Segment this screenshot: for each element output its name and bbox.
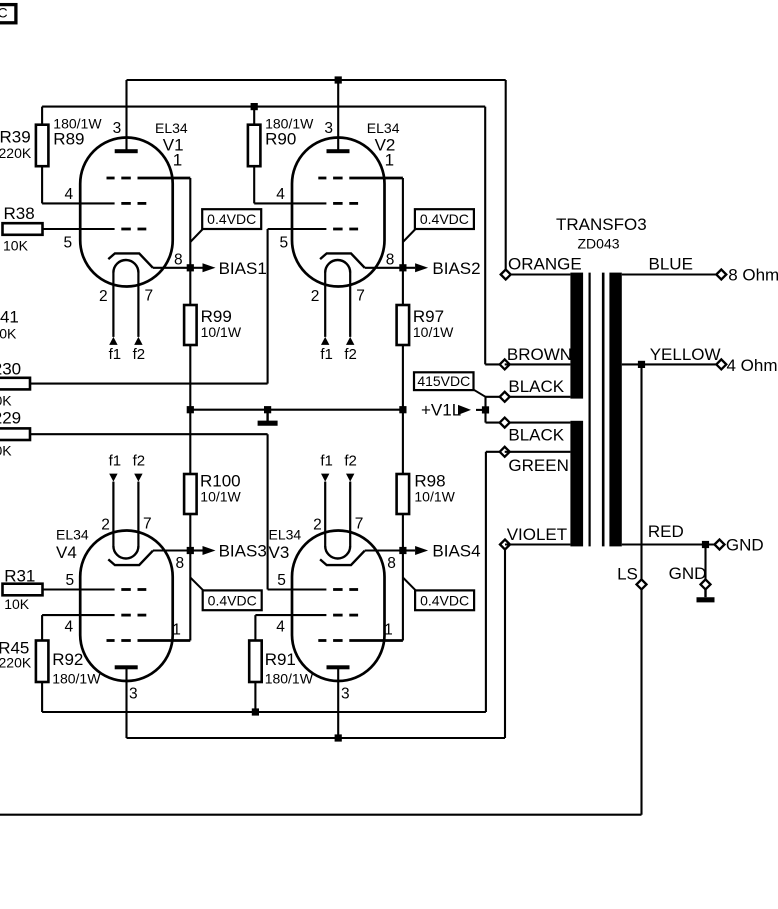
tube V2 heater filament (pins 2,7) (325, 260, 350, 273)
leader line for 0.4VDC callout (190, 578, 203, 591)
svg-text:EL34: EL34 (155, 120, 188, 136)
wire: bias return line between chains (190, 409, 403, 411)
tube V3 grid g2 dashes (pin 4 row) (333, 614, 343, 617)
chassis ground symbol (mid line) (266, 410, 268, 421)
svg-text:R38: R38 (4, 204, 35, 223)
resistor R230 (partially off-sheet) (0, 378, 30, 390)
svg-text:180/1W: 180/1W (265, 670, 314, 686)
svg-text:220K: 220K (0, 654, 32, 670)
wire: R90 bottom to V2 pin 4 (253, 166, 255, 203)
svg-text:10K: 10K (3, 238, 29, 254)
resistor R31 10K (3, 584, 43, 596)
svg-text:BIAS2: BIAS2 (432, 259, 480, 278)
terminal GND (chassis) (701, 579, 711, 589)
svg-text:10K: 10K (0, 442, 12, 458)
wire: bias chain V1 pin1 to V4 pin1 through R99/R100 (189, 178, 191, 641)
svg-text:EL34: EL34 (367, 120, 400, 136)
svg-text:220K: 220K (0, 145, 32, 161)
svg-text:f1: f1 (109, 453, 122, 470)
resistor R91 180/1W (249, 641, 262, 683)
svg-text:7: 7 (143, 515, 152, 532)
wire + terminal RED / GND (622, 543, 715, 545)
svg-text:ZD043: ZD043 (578, 236, 620, 252)
svg-text:1: 1 (172, 622, 181, 639)
svg-text:V4: V4 (56, 543, 77, 562)
tube V4 anode plate (pin 3) (115, 665, 138, 669)
svg-text:GND: GND (726, 535, 764, 554)
svg-text:8: 8 (176, 555, 185, 572)
wire: feedback LS line (640, 364, 642, 579)
tube V3 anode plate (pin 3) (327, 665, 350, 669)
terminal BROWN (500, 359, 510, 369)
svg-text:5: 5 (66, 572, 75, 589)
svg-text:BIAS1: BIAS1 (219, 259, 267, 278)
wire + terminal BLUE / 8 Ohm output (622, 273, 717, 275)
svg-text:RED: RED (648, 522, 684, 541)
tube V1 grid g3 dashes (pin 1 row) (107, 177, 115, 180)
value label 0.4VDC callout box (415, 209, 474, 229)
resistor R100 10/1W (184, 474, 197, 514)
svg-text:BLUE: BLUE (649, 255, 693, 274)
leader line for 0.4VDC callout (403, 578, 416, 591)
svg-text:5: 5 (64, 235, 73, 252)
svg-text:GND: GND (669, 564, 707, 583)
node BIAS4 (399, 547, 406, 554)
leader line for 0.4VDC callout (190, 229, 203, 242)
tube V2 envelope (292, 138, 385, 287)
svg-text:3: 3 (324, 120, 333, 137)
svg-text:ORANGE: ORANGE (508, 255, 582, 274)
svg-text:10K: 10K (4, 596, 30, 612)
wire: V1 grid g3 row to chain (138, 177, 191, 180)
junction: left chain / mid line (187, 406, 194, 413)
tube V3 grid g3 dashes (pin 1 row) (318, 639, 326, 642)
junction: V2 plate on bus (335, 76, 342, 83)
wire: R31 to V4 pin 5 (43, 588, 115, 590)
tube V3 envelope (292, 531, 385, 682)
wire: R91 top to V3 pin 4 (254, 615, 256, 640)
svg-text:BIAS4: BIAS4 (432, 542, 480, 561)
value label 0.4VDC callout box (202, 209, 261, 229)
wire: bias chain V2 pin1 to V3 pin1 through R97/R98 (402, 178, 404, 641)
wire: R229 to V3 pin 5 (30, 433, 268, 435)
svg-text:+V1L: +V1L (421, 400, 461, 419)
node BIAS1 (187, 264, 194, 271)
wire: V3 grid g3 row to chain (349, 639, 403, 642)
terminal LS (637, 579, 647, 589)
svg-text:f2: f2 (133, 453, 146, 470)
terminal GREEN (500, 447, 510, 457)
svg-text:1: 1 (173, 151, 182, 170)
svg-text:10K: 10K (0, 392, 12, 408)
svg-text:2: 2 (101, 516, 110, 533)
svg-text:10/1W: 10/1W (200, 489, 241, 505)
tube V4 cathode (pin 8) (108, 551, 153, 565)
wire: V4 grid g3 row to chain (138, 639, 191, 642)
tube V2 grid g1 dashes (pin 5 row) (333, 228, 343, 231)
svg-text:4: 4 (276, 186, 285, 203)
transformer primary winding lower section (570, 421, 583, 547)
wire: RED to chassis ground (704, 545, 706, 580)
resistor R89 180/1W (36, 125, 49, 167)
svg-text:R89: R89 (53, 129, 84, 148)
resistor R97 10/1W (397, 305, 410, 345)
svg-text:0.4VDC: 0.4VDC (207, 211, 256, 227)
svg-text:LS: LS (617, 564, 638, 583)
svg-text:0.4VDC: 0.4VDC (420, 211, 469, 227)
svg-text:R41: R41 (0, 308, 19, 327)
resistor R99 10/1W (184, 305, 197, 345)
svg-text:BROWN: BROWN (507, 345, 572, 364)
wire: R38 to V1 pin 5 (43, 228, 115, 230)
svg-text:8 Ohm: 8 Ohm (728, 266, 778, 285)
wire + terminal BLACK (lower centre tap) (486, 422, 571, 424)
transformer secondary winding (609, 273, 621, 547)
svg-text:TRANSFO3: TRANSFO3 (556, 215, 647, 234)
svg-text:5: 5 (277, 572, 286, 589)
wire: V2 pin 8 to BIAS2 node (365, 267, 403, 269)
wire + terminal BLACK (upper centre tap) (486, 396, 571, 398)
filament terminal arrow f1 of V2 (321, 337, 329, 345)
tube V1 anode plate (pin 3) (115, 149, 138, 153)
svg-text:f2: f2 (133, 346, 146, 363)
filament terminal arrow f2 of V1 (134, 337, 142, 345)
wire: plate bus V4/V3 to transformer VIOLET (127, 737, 506, 739)
wire: screen bus R92/R91 bottoms to transformer GREEN (41, 682, 43, 712)
tube V4 grid g1 dashes (pin 5 row) (121, 588, 131, 591)
svg-text:f2: f2 (344, 346, 357, 363)
wire: V2 grid g3 row to chain (349, 177, 403, 180)
junction: 4 Ohm tap to LS feedback (638, 361, 645, 368)
svg-text:R39: R39 (0, 128, 31, 147)
tube V3 heater filament (pins 2,7) (325, 546, 350, 559)
filament terminal arrow f1 of V3 (321, 474, 329, 482)
wire + terminal ORANGE (506, 273, 571, 275)
svg-text:5: 5 (280, 235, 289, 252)
filament terminal arrow f2 of V2 (346, 337, 354, 345)
tube V1 grid g1 dashes (pin 5 row) (121, 228, 131, 231)
wire: screen bus R89/R90 to transformer BROWN (42, 106, 485, 108)
chassis ground symbol (output) (704, 589, 706, 597)
leader line for 415VDC callout (473, 389, 486, 397)
svg-text:415VDC: 415VDC (417, 373, 470, 389)
svg-text:C: C (0, 5, 8, 21)
svg-text:8: 8 (386, 252, 395, 269)
svg-text:BLACK: BLACK (508, 377, 564, 396)
wire: R89 bottom to V1 pin 4 (41, 166, 43, 203)
svg-text:BIAS3: BIAS3 (219, 542, 267, 561)
transformer primary winding upper section (570, 273, 583, 399)
svg-text:2: 2 (99, 288, 108, 305)
terminal VIOLET (500, 540, 510, 550)
svg-text:VIOLET: VIOLET (507, 525, 567, 544)
node +V1L (HT centre tap) (484, 397, 486, 423)
node BIAS3 (187, 547, 194, 554)
wire: R92 top to V4 pin 4 (41, 615, 43, 640)
svg-text:10K: 10K (0, 325, 17, 341)
tube V1 envelope (80, 138, 173, 287)
svg-text:3: 3 (341, 686, 350, 703)
svg-text:1: 1 (385, 151, 394, 170)
svg-text:EL34: EL34 (269, 527, 302, 543)
svg-text:R91: R91 (265, 650, 296, 669)
node BIAS2 (399, 264, 406, 271)
wire: V4 pin 8 to BIAS3 node (153, 549, 190, 551)
svg-text:R230: R230 (0, 359, 21, 378)
svg-text:f1: f1 (320, 453, 333, 470)
svg-text:0.4VDC: 0.4VDC (420, 592, 469, 608)
svg-text:2: 2 (311, 288, 320, 305)
tube V3 cathode (pin 8) (320, 551, 365, 565)
svg-text:1: 1 (384, 622, 393, 639)
svg-text:10/1W: 10/1W (414, 489, 455, 505)
tube V3 grid g1 dashes (pin 5 row) (333, 588, 343, 591)
resistor R98 10/1W (397, 474, 410, 514)
wire + terminal YELLOW / 4 Ohm output (622, 363, 717, 365)
resistor R90 180/1W (248, 125, 261, 167)
wire: V3 pin 8 to BIAS4 node (365, 549, 403, 551)
filament terminal arrow f1 of V4 (109, 474, 117, 482)
wire: plate bus V1/V2 to transformer ORANGE (127, 79, 506, 81)
svg-text:3: 3 (113, 120, 122, 137)
tube V1 grid g2 dashes (pin 4 row) (121, 202, 131, 205)
resistor R229 (partially off-sheet) (0, 428, 30, 440)
filament terminal arrow f2 of V4 (134, 474, 142, 482)
wire: V1 pin 8 to BIAS1 node (153, 267, 190, 269)
filament terminal arrow f1 of V1 (109, 337, 117, 345)
svg-text:10/1W: 10/1W (201, 324, 242, 340)
value label 0.4VDC callout box (203, 590, 262, 610)
svg-text:180/1W: 180/1W (52, 670, 101, 686)
tube V4 grid g3 dashes (pin 1 row) (107, 639, 115, 642)
svg-text:8: 8 (387, 555, 396, 572)
svg-text:f1: f1 (109, 346, 122, 363)
svg-text:2: 2 (313, 516, 322, 533)
junction: right chain / mid line (399, 406, 406, 413)
svg-text:4 Ohm: 4 Ohm (727, 356, 778, 375)
wire: R230 to V2 pin 5 (30, 383, 268, 385)
tube V4 envelope (80, 531, 173, 682)
leader line for 0.4VDC callout (403, 229, 416, 242)
tube V2 grid g3 dashes (pin 1 row) (318, 177, 326, 180)
svg-text:R90: R90 (265, 129, 296, 148)
svg-text:EL34: EL34 (56, 527, 89, 543)
svg-text:R229: R229 (0, 409, 21, 428)
tube V4 heater filament (pins 2,7) (113, 546, 138, 559)
junction: V3 plate on bus (335, 734, 342, 741)
tube V4 grid g2 dashes (pin 4 row) (121, 614, 131, 617)
junction: R90 top on bus (251, 103, 258, 110)
svg-text:YELLOW: YELLOW (650, 345, 721, 364)
svg-text:4: 4 (65, 619, 74, 636)
filament terminal arrow f2 of V3 (346, 474, 354, 482)
value label 0.4VDC callout box (415, 590, 474, 610)
svg-text:3: 3 (129, 686, 138, 703)
junction: R91 bottom on bus (252, 708, 259, 715)
svg-text:0.4VDC: 0.4VDC (208, 592, 257, 608)
drawing frame revision box C (0, 5, 16, 23)
svg-text:f1: f1 (320, 346, 333, 363)
tube V1 cathode (pin 8) (108, 253, 153, 267)
svg-text:10/1W: 10/1W (413, 324, 454, 340)
svg-text:V3: V3 (269, 543, 290, 562)
resistor R92 180/1W (36, 641, 49, 683)
svg-text:R92: R92 (52, 650, 83, 669)
tube V1 heater filament (pins 2,7) (113, 260, 138, 273)
svg-text:7: 7 (356, 288, 365, 305)
junction: ground tap on mid line (264, 406, 271, 413)
svg-text:7: 7 (355, 515, 364, 532)
tube V2 grid g2 dashes (pin 4 row) (333, 202, 343, 205)
transformer core laminations (588, 273, 590, 547)
value label 415VDC callout box (414, 372, 474, 390)
resistor R38 10K (3, 223, 43, 235)
tube V2 anode plate (pin 3) (327, 149, 350, 153)
svg-text:BLACK: BLACK (508, 425, 564, 444)
svg-text:7: 7 (145, 288, 154, 305)
svg-text:GREEN: GREEN (508, 456, 568, 475)
svg-text:8: 8 (174, 252, 183, 269)
tube V2 cathode (pin 8) (320, 253, 365, 267)
svg-text:4: 4 (276, 619, 285, 636)
svg-text:R31: R31 (4, 566, 35, 585)
svg-text:4: 4 (65, 186, 74, 203)
svg-text:f2: f2 (344, 453, 357, 470)
